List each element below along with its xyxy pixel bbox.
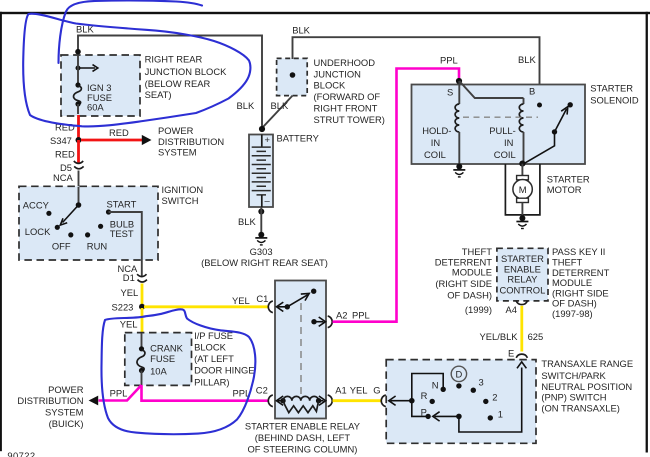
svg-text:RELAY: RELAY: [507, 274, 538, 285]
svg-text:BLK: BLK: [271, 100, 289, 111]
svg-text:YEL: YEL: [120, 319, 138, 330]
svg-text:ACCY: ACCY: [23, 199, 50, 210]
terminal S: [447, 78, 462, 98]
svg-text:POWER: POWER: [158, 125, 194, 136]
svg-text:SOLENOID: SOLENOID: [590, 95, 639, 106]
svg-text:STARTER ENABLE RELAY: STARTER ENABLE RELAY: [245, 421, 361, 432]
svg-text:BLK: BLK: [292, 24, 310, 35]
svg-text:PPL: PPL: [233, 387, 251, 398]
page border right: [646, 12, 648, 453]
contact RUN: [85, 232, 107, 251]
PNP terminal G arrow: [389, 396, 412, 405]
wire BLK: battery to G303: [238, 207, 264, 232]
svg-text:90722: 90722: [7, 450, 35, 457]
relay coil: [280, 396, 321, 403]
ground G303: [201, 232, 328, 268]
svg-text:YEL: YEL: [232, 295, 250, 306]
svg-text:RED: RED: [55, 148, 75, 159]
wire RED: fuse to S347: [55, 104, 79, 140]
svg-text:A2: A2: [336, 309, 347, 320]
svg-text:A4: A4: [506, 304, 517, 315]
svg-text:OF STEERING COLUMN): OF STEERING COLUMN): [247, 443, 357, 454]
svg-text:FUSE: FUSE: [150, 353, 175, 364]
svg-text:D1: D1: [123, 272, 135, 283]
relay terminal C1 arrow: [277, 302, 288, 311]
svg-text:LOCK: LOCK: [25, 226, 51, 237]
svg-text:RED: RED: [109, 127, 129, 138]
svg-text:HOLD-: HOLD-: [422, 125, 451, 136]
svg-text:PILLAR): PILLAR): [194, 376, 229, 387]
starter motor M1: [505, 164, 590, 216]
theft deterrent module label (1999): [435, 246, 493, 315]
terminal B: [529, 85, 542, 107]
tap arrow to other loads: [76, 65, 98, 72]
svg-text:RIGHT FRONT: RIGHT FRONT: [314, 102, 378, 113]
junction: solenoid output to starter motor: [519, 161, 525, 167]
svg-text:YEL/BLK: YEL/BLK: [480, 331, 519, 342]
wire YEL: S223 to crank fuse: [120, 308, 142, 333]
svg-text:PULL-: PULL-: [489, 125, 516, 136]
svg-text:YEL: YEL: [350, 385, 368, 396]
contact 3: [471, 376, 484, 393]
PNP switch (dashed box): [386, 358, 633, 443]
junction dot at battery positive: [259, 126, 265, 132]
solenoid contact switch: [524, 102, 573, 164]
wire RED: S347 to D5: [55, 140, 79, 163]
svg-text:DISTRIBUTION: DISTRIBUTION: [158, 136, 224, 147]
connector E: [508, 347, 527, 358]
contact START: [106, 199, 137, 215]
battery B1: [249, 132, 320, 207]
wire NCA: D5 to ignition switch: [78, 171, 80, 188]
contact 1: [488, 409, 503, 421]
svg-text:IGNITION: IGNITION: [162, 184, 204, 195]
PNP wire: wiper to E with up arrow: [459, 362, 527, 432]
svg-text:YEL: YEL: [121, 287, 139, 298]
wire: S to pull-in coil: [459, 81, 523, 98]
ground at hold-in coil: [453, 164, 465, 177]
underhood junction block (dashed box): [277, 57, 385, 125]
wire RED: S347 to power distribution (arrow): [81, 125, 224, 157]
svg-text:P: P: [421, 407, 427, 418]
contact P: [421, 407, 431, 420]
contact ACCY: [23, 199, 52, 216]
svg-text:BATTERY: BATTERY: [277, 132, 320, 143]
svg-text:–: –: [265, 195, 271, 206]
PNP wire: junction to N contact: [412, 374, 443, 401]
PNP common junction: [409, 398, 415, 404]
svg-text:E: E: [508, 347, 514, 358]
connector D5: [53, 161, 84, 183]
contact D (circled): [451, 366, 466, 388]
connector A2: [328, 316, 333, 328]
svg-text:A1: A1: [335, 385, 346, 396]
svg-text:DISTRIBUTION: DISTRIBUTION: [17, 395, 83, 406]
svg-text:D: D: [456, 368, 463, 379]
svg-text:CRANK: CRANK: [150, 343, 184, 354]
svg-text:60A: 60A: [87, 102, 104, 113]
svg-text:(ON TRANSAXLE): (ON TRANSAXLE): [541, 403, 620, 414]
svg-text:G: G: [373, 385, 380, 396]
svg-text:(BEHIND DASH, LEFT: (BEHIND DASH, LEFT: [255, 432, 351, 443]
relay resistor: [283, 401, 319, 413]
svg-text:B: B: [529, 85, 535, 96]
I/P fuse block (dashed box): [125, 330, 255, 387]
svg-text:SWITCH: SWITCH: [162, 195, 199, 206]
svg-text:BLK: BLK: [518, 54, 536, 65]
svg-text:G303: G303: [250, 246, 273, 257]
contact OFF: [52, 232, 74, 251]
svg-text:IN: IN: [431, 137, 440, 148]
svg-text:SYSTEM: SYSTEM: [45, 407, 84, 418]
relay switch blade: [285, 289, 317, 310]
svg-text:BLOCK: BLOCK: [314, 80, 347, 91]
wire YEL: D1 to S223: [121, 284, 143, 307]
connector C1: [268, 301, 273, 313]
contact BULB TEST: [98, 218, 134, 239]
svg-text:BLK: BLK: [238, 216, 256, 227]
svg-text:(RIGHT SIDE: (RIGHT SIDE: [435, 278, 492, 289]
svg-text:DOOR HINGE: DOOR HINGE: [194, 365, 254, 376]
svg-text:S347: S347: [50, 135, 72, 146]
svg-text:R: R: [421, 390, 428, 401]
wire YEL/BLK 625: A4 to PNP E: [480, 306, 544, 352]
svg-text:(1997-98): (1997-98): [552, 308, 593, 319]
annotation: blue pen tail stroke top-left: [59, 1, 203, 63]
svg-text:PPL: PPL: [352, 309, 370, 320]
svg-text:(1999): (1999): [465, 304, 492, 315]
connector A4: [506, 301, 528, 315]
fuse IGN 3 60A: [74, 57, 112, 113]
wire PPL: crank fuse to power distribution Buick (arrow): [17, 384, 141, 429]
ignition switch SW1 (dashed box): [19, 184, 203, 260]
svg-text:CONTROL: CONTROL: [499, 284, 545, 295]
svg-text:OFF: OFF: [52, 241, 71, 252]
svg-text:UNDERHOOD: UNDERHOOD: [314, 57, 376, 68]
wire NCA: ignition switch to D1: [118, 261, 142, 277]
contact 2: [483, 392, 497, 404]
svg-text:OF DASH): OF DASH): [447, 290, 492, 301]
svg-text:STRUT TOWER): STRUT TOWER): [314, 114, 385, 125]
solenoid linkage (dashed): [463, 116, 538, 118]
svg-text:COIL: COIL: [494, 149, 516, 160]
right rear junction block U1 (dashed box): [61, 53, 227, 116]
hold-in coil: [422, 81, 459, 165]
svg-text:TRANSAXLE RANGE: TRANSAXLE RANGE: [541, 358, 633, 369]
starter enable relay K1 (box): [245, 281, 361, 455]
page border left: [0, 12, 2, 451]
junction dot inside underhood block: [290, 72, 296, 78]
wire BLK: underhood block to battery junction: [263, 96, 293, 128]
svg-text:(PNP) SWITCH: (PNP) SWITCH: [541, 392, 606, 403]
contact R: [421, 390, 435, 404]
svg-text:RIGHT REAR: RIGHT REAR: [145, 53, 203, 64]
svg-text:JUNCTION: JUNCTION: [314, 68, 361, 79]
connector C2: [268, 395, 273, 407]
svg-text:625: 625: [528, 331, 544, 342]
svg-text:STARTER: STARTER: [547, 173, 590, 184]
svg-text:(BUICK): (BUICK): [49, 418, 84, 429]
junction dot above fuse: [75, 49, 81, 55]
annotation: blue pen loop around crank fuse: [101, 309, 255, 434]
svg-text:(BELOW RIGHT REAR SEAT): (BELOW RIGHT REAR SEAT): [201, 257, 328, 268]
svg-text:(BELOW REAR: (BELOW REAR: [145, 78, 211, 89]
svg-text:BLK: BLK: [237, 100, 255, 111]
svg-text:PPL: PPL: [440, 54, 458, 65]
svg-text:C1: C1: [256, 293, 268, 304]
svg-text:10A: 10A: [150, 365, 167, 376]
svg-text:STARTER: STARTER: [590, 83, 633, 94]
wire: START contact to switch output: [109, 212, 142, 261]
ground at starter motor: [516, 215, 528, 228]
svg-text:SEAT): SEAT): [145, 89, 172, 100]
svg-text:COIL: COIL: [424, 149, 446, 160]
svg-text:3: 3: [479, 376, 484, 387]
node S347: [50, 135, 82, 146]
svg-text:START: START: [107, 199, 137, 210]
page border top: [0, 12, 650, 14]
svg-text:MOTOR: MOTOR: [547, 184, 582, 195]
relay terminal C2 arrow: [276, 396, 283, 405]
svg-text:(AT LEFT: (AT LEFT: [194, 353, 234, 364]
svg-text:NCA: NCA: [53, 172, 74, 183]
svg-text:NEUTRAL POSITION: NEUTRAL POSITION: [541, 381, 632, 392]
pass key II theft deterrent module label (1997-98): [552, 246, 610, 319]
svg-text:S223: S223: [112, 301, 134, 312]
svg-text:BLOCK: BLOCK: [194, 342, 227, 353]
PNP wiper arrow to P: [433, 412, 462, 421]
starter enable relay control (dashed box): [497, 248, 548, 301]
label A2 PPL: [336, 309, 370, 320]
svg-text:N: N: [432, 380, 439, 391]
svg-text:POWER: POWER: [48, 384, 84, 395]
svg-text:IN: IN: [504, 137, 513, 148]
wire PPL: crank fuse to relay C2: [142, 385, 269, 401]
PNP wire: junction to P contact: [412, 401, 426, 417]
svg-text:S: S: [447, 86, 453, 97]
starter solenoid (box): [412, 83, 639, 164]
wire BLK: junction block to battery: [76, 24, 262, 130]
svg-text:C2: C2: [256, 385, 268, 396]
contact N: [432, 380, 446, 392]
pull-in coil: [489, 98, 523, 164]
connector D1: [123, 272, 147, 283]
svg-text:1: 1: [498, 409, 503, 420]
svg-text:RUN: RUN: [87, 241, 107, 252]
relay terminal A1 arrow: [319, 396, 326, 405]
svg-text:TEST: TEST: [110, 228, 134, 239]
fuse CRANK 10A: [137, 333, 184, 385]
ignition switch pivot and blade: [60, 187, 81, 225]
svg-text:SYSTEM: SYSTEM: [158, 147, 197, 158]
wire YEL: relay A1 to PNP G: [333, 385, 381, 401]
svg-text:SWITCH/PARK: SWITCH/PARK: [541, 370, 606, 381]
svg-text:PPL: PPL: [110, 387, 128, 398]
wire YEL: S223 to relay C1: [144, 293, 268, 307]
svg-text:M: M: [519, 184, 527, 195]
svg-text:2: 2: [492, 392, 497, 403]
svg-text:JUNCTION BLOCK: JUNCTION BLOCK: [145, 66, 228, 77]
wire PPL: relay A2 to solenoid S: [333, 69, 460, 322]
annotation: blue pen loop around junction block: [23, 14, 250, 127]
wire BLK: underhood junction block to solenoid B: [292, 24, 539, 104]
svg-text:MODULE: MODULE: [452, 266, 492, 277]
node S223: [112, 301, 146, 312]
relay linkage (dashed): [300, 303, 302, 400]
svg-text:+: +: [265, 134, 271, 145]
connector A1: [328, 395, 333, 407]
connector G: [381, 395, 386, 407]
svg-text:(FORWARD OF: (FORWARD OF: [314, 91, 381, 102]
contact LOCK: [25, 225, 60, 237]
relay terminal A2 arrow: [311, 317, 325, 326]
